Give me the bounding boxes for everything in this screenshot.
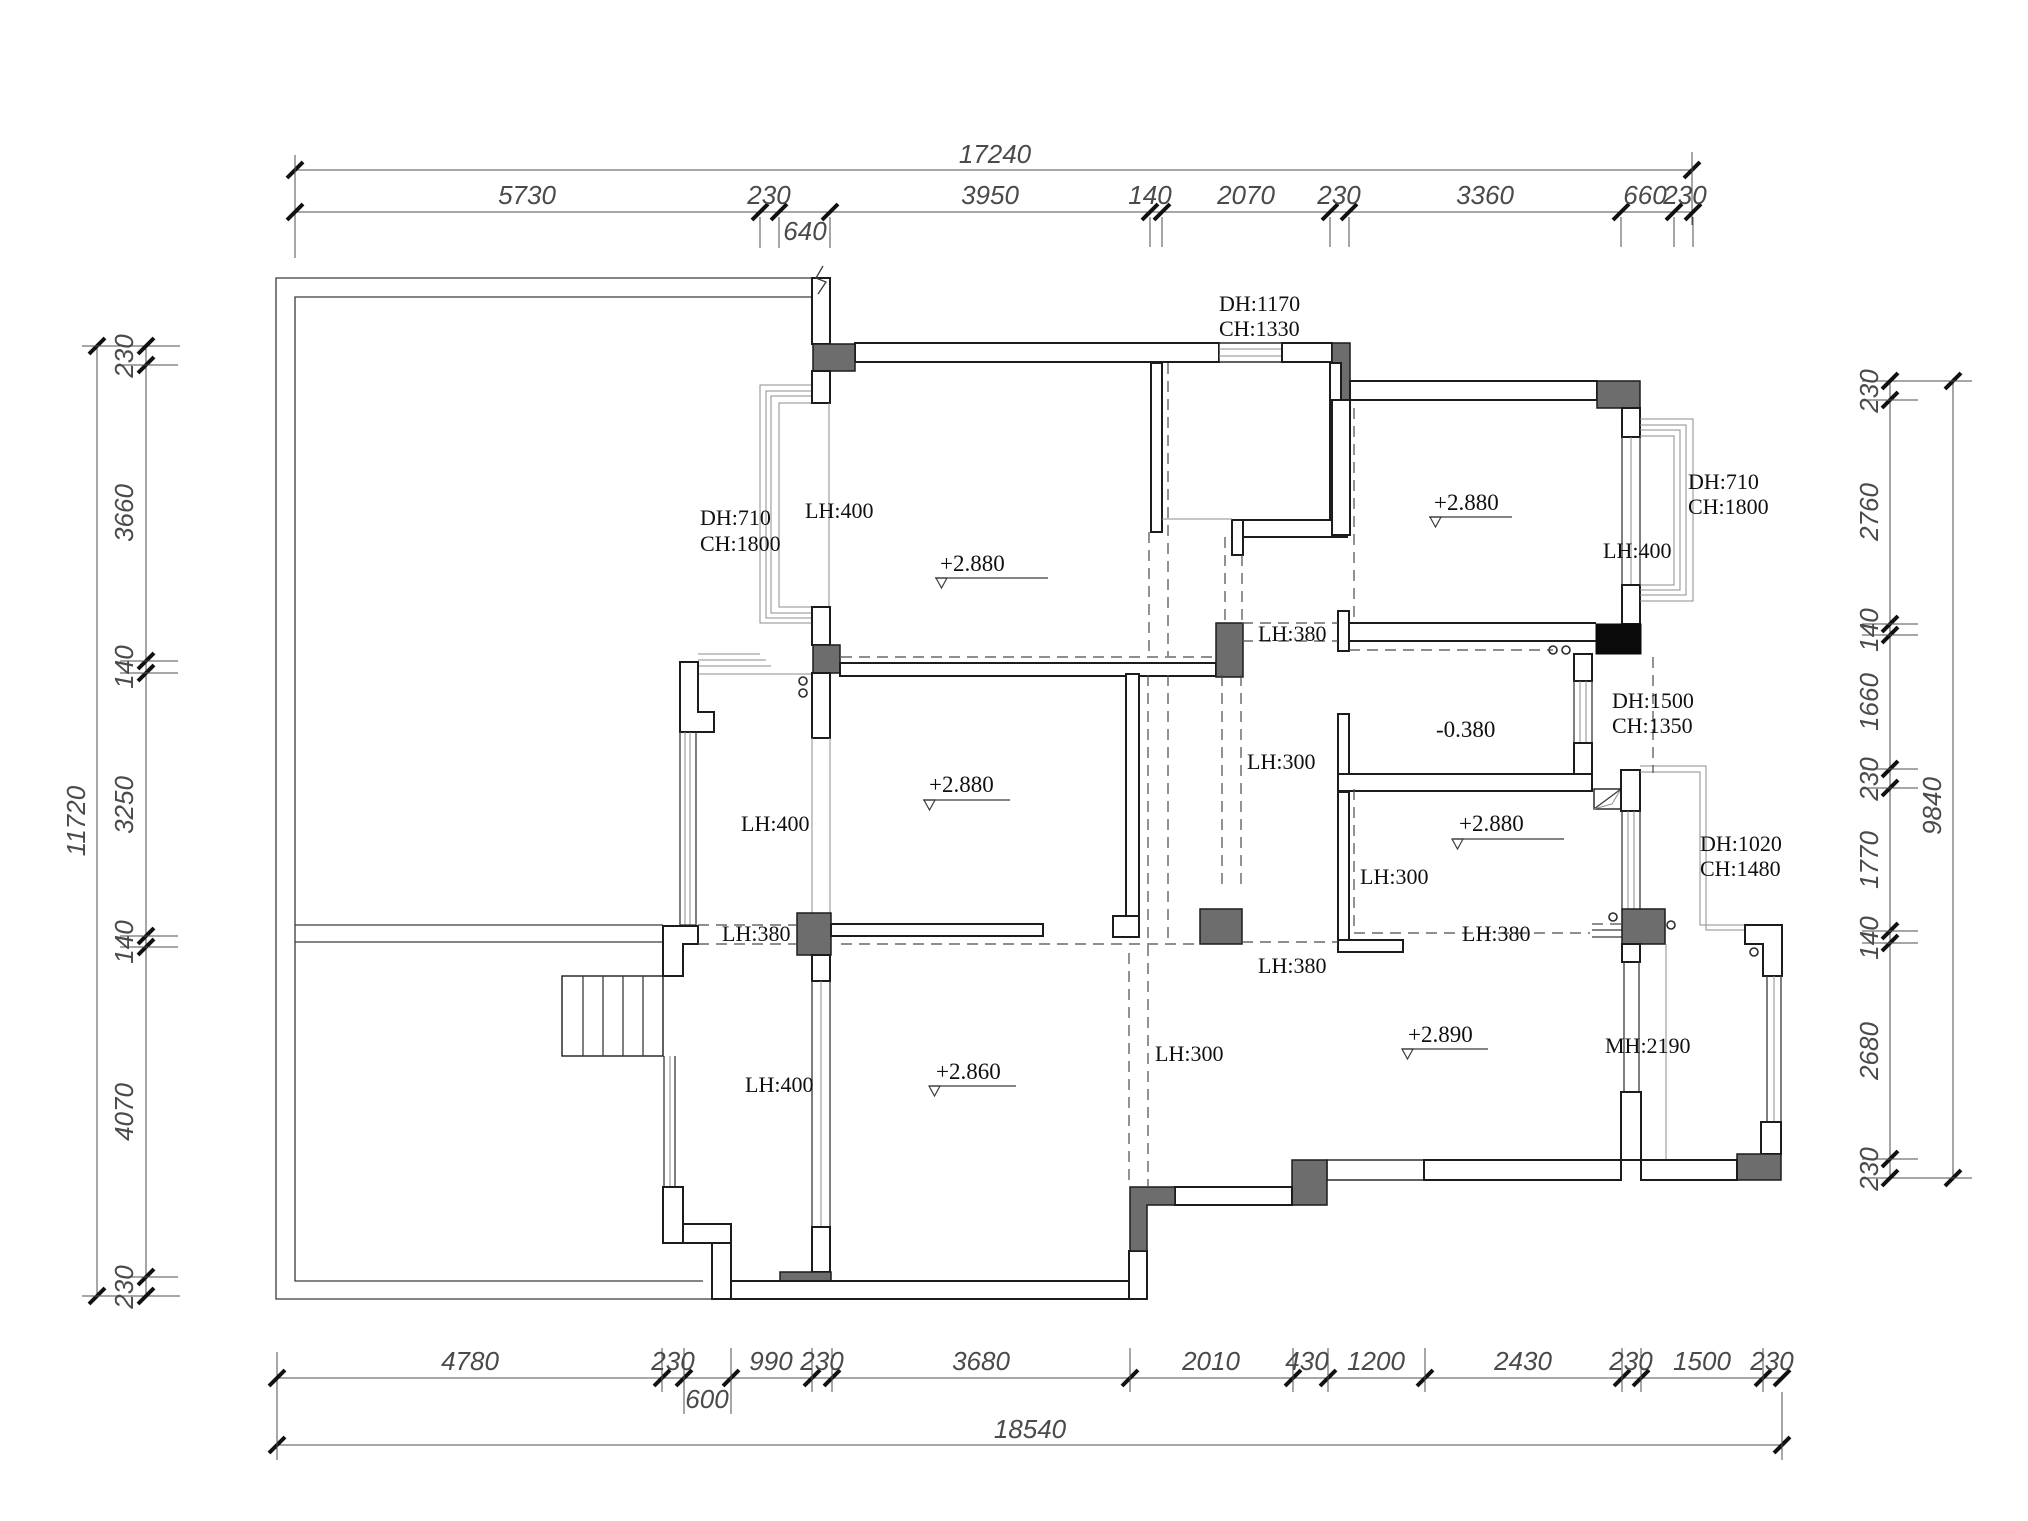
dimension label 140 top (1128, 180, 1172, 210)
label DH:1500 (1612, 688, 1694, 713)
dashed vertical right bedroom (1353, 408, 1355, 623)
wall pier below C1 (812, 371, 830, 403)
corner bay glazing inner (1640, 772, 1745, 925)
column C2 (813, 645, 840, 673)
wall closet bottom band (1242, 520, 1347, 537)
bay window B1 frame (779, 403, 829, 607)
svg-text:230: 230 (746, 180, 791, 210)
dimension label 4070 left (109, 1083, 139, 1141)
svg-text:230: 230 (1662, 180, 1707, 210)
dashed LH380 terrace door lower (698, 943, 797, 945)
dimension label 1200 bottom (1347, 1346, 1405, 1376)
svg-text:+2.890: +2.890 (1408, 1022, 1473, 1047)
svg-text:230: 230 (650, 1346, 695, 1376)
svg-text:230: 230 (109, 334, 139, 379)
svg-text:-0.380: -0.380 (1436, 717, 1495, 742)
dimension right chain line with ticks (1862, 373, 1918, 1186)
dimension right total line (1862, 373, 1972, 1186)
dashed vertical pair center a (1147, 675, 1149, 1187)
label LH:400 right bedroom (1603, 538, 1671, 563)
dimension label 230 bottom (1608, 1346, 1653, 1376)
svg-text:LH:380: LH:380 (1258, 953, 1326, 978)
svg-text:CH:1480: CH:1480 (1700, 856, 1781, 881)
wall piece left of -0.380 room top (1338, 611, 1349, 651)
svg-text:1770: 1770 (1854, 831, 1884, 889)
dashed line closet v2 (1167, 363, 1169, 656)
wall pier above window W5 (1574, 654, 1592, 681)
dimension label 230 left (109, 1265, 139, 1310)
hinge circle corner (1750, 948, 1758, 956)
svg-text:660: 660 (1623, 180, 1667, 210)
column C9 black (1596, 624, 1641, 654)
label CH:1800 left (700, 531, 781, 556)
svg-text:MH:2190: MH:2190 (1605, 1033, 1691, 1058)
wall top band right of window W1 (1282, 343, 1332, 362)
window W1 DH:1170 top kitchen (1219, 343, 1282, 362)
dimension label 2680 right (1854, 1022, 1884, 1081)
svg-text:LH:380: LH:380 (1258, 621, 1326, 646)
dimension label 230 right (1854, 369, 1884, 414)
window W5 DH:1500 (1574, 681, 1592, 743)
dashed line closet bottom v3 (1224, 537, 1226, 623)
column C10 (1622, 909, 1665, 944)
wall closet right (1330, 363, 1341, 520)
svg-text:2430: 2430 (1493, 1346, 1552, 1376)
svg-text:640: 640 (783, 216, 827, 246)
svg-text:230: 230 (1854, 1147, 1884, 1192)
bay window B2 nested rects (1640, 419, 1693, 601)
dashed line closet bottom v4 (1241, 555, 1243, 623)
svg-text:+2.880: +2.880 (1459, 811, 1524, 836)
dimension label 430 bottom (1285, 1346, 1329, 1376)
svg-text:17240: 17240 (959, 139, 1032, 169)
svg-text:DH:710: DH:710 (1688, 469, 1759, 494)
wall pier right of flue (1621, 770, 1640, 811)
stairs (562, 976, 663, 1056)
svg-text:140: 140 (1854, 916, 1884, 960)
label MH:2190 (1605, 1033, 1691, 1058)
svg-text:140: 140 (109, 645, 139, 689)
wall right-bedroom right pier bottom (1622, 585, 1640, 624)
label LH:380 bottom left (1258, 953, 1326, 978)
dashed LH380 bathroom bottom (1354, 932, 1590, 934)
dimension label 17240 (959, 139, 1032, 169)
svg-text:3360: 3360 (1456, 180, 1514, 210)
window W7 MH:2190 lines (1624, 962, 1639, 1092)
dimension label 3250 left (109, 776, 139, 834)
wall corner L-piece (1745, 925, 1782, 976)
label -0.380 (1436, 717, 1495, 742)
svg-text:2680: 2680 (1854, 1022, 1884, 1081)
wire terrace middle division lower line (295, 941, 663, 943)
dimension label 2760 right (1854, 483, 1884, 542)
dimension top total line (287, 152, 1700, 258)
svg-text:LH:380: LH:380 (1462, 921, 1530, 946)
svg-text:18540: 18540 (994, 1414, 1067, 1444)
dimension label 230 top (1662, 180, 1707, 210)
label LH:300 upper (1247, 749, 1315, 774)
dimension label 3950 top (961, 180, 1019, 210)
wall step piece S2 (683, 1224, 731, 1243)
label LH:400 bottom (745, 1072, 813, 1097)
label LH:300 bottom (1155, 1041, 1223, 1066)
svg-text:DH:1500: DH:1500 (1612, 688, 1694, 713)
dimension label 230 left (109, 334, 139, 379)
svg-text:3250: 3250 (109, 776, 139, 834)
door opening band 1200 (1327, 1160, 1424, 1180)
dimension left chain line with ticks (120, 338, 178, 1304)
dimension label 600 bottom second row (685, 1384, 729, 1414)
dimension left total line (82, 338, 180, 1304)
window W6 four lines (1622, 811, 1640, 909)
wire terrace outer boundary (276, 278, 812, 1299)
wall bathroom bottom stub band (1338, 940, 1403, 952)
svg-text:CH:1330: CH:1330 (1219, 316, 1300, 341)
svg-text:+2.880: +2.880 (1434, 490, 1499, 515)
window W2 lower left wall (812, 981, 830, 1227)
label LH:380 top corridor (1258, 621, 1326, 646)
svg-text:5730: 5730 (498, 180, 556, 210)
column C6 (1200, 909, 1242, 944)
wall top band of right bedroom (1350, 381, 1597, 400)
label LH:400 top (805, 498, 873, 523)
svg-text:230: 230 (1316, 180, 1361, 210)
label DH:1170 (1219, 291, 1300, 316)
column C3 (797, 913, 831, 955)
svg-text:LH:380: LH:380 (722, 921, 790, 946)
wall L-piece LP1 (680, 662, 714, 732)
wall bottom band right-1 (1424, 1160, 1621, 1180)
svg-text:LH:400: LH:400 (745, 1072, 813, 1097)
dimension label 9840 (1917, 777, 1947, 835)
svg-text:LH:400: LH:400 (741, 811, 809, 836)
dashed beam above middle band (841, 656, 1216, 658)
window W8 three lines (1767, 976, 1781, 1122)
dimension label 1770 right (1854, 831, 1884, 889)
wall pier above column C4 (812, 1227, 830, 1272)
dimension label 230 right (1854, 1147, 1884, 1192)
svg-text:DH:1020: DH:1020 (1700, 831, 1782, 856)
svg-text:DH:1170: DH:1170 (1219, 291, 1300, 316)
column C4 bottom of left wall (780, 1272, 831, 1299)
dimension bottom total line (269, 1352, 1790, 1460)
wall right-bedroom left band (1332, 400, 1350, 535)
label DH:710 left (700, 505, 771, 530)
dashed vertical pair LH300 hall b (1240, 675, 1242, 890)
wall stub above bottom band (1621, 1092, 1641, 1160)
window W3 four lines (680, 732, 696, 925)
svg-text:230: 230 (1749, 1346, 1794, 1376)
wall bottom band left part (731, 1281, 1129, 1299)
wall left pier above column C1 (812, 278, 830, 344)
wall top band left of kitchen window (855, 343, 1219, 362)
label LH:400 mid (741, 811, 809, 836)
svg-text:LH:400: LH:400 (805, 498, 873, 523)
dashed LH380 terrace door upper (698, 924, 797, 926)
wall pier below bay B1 (812, 607, 830, 645)
thin line below C10 (1665, 944, 1667, 1159)
wall L-piece LP2 (663, 926, 698, 976)
label CH:1480 (1700, 856, 1781, 881)
dimension label 140 right (1854, 608, 1884, 652)
terrace glazing lines to bay (698, 654, 812, 674)
dimension top chain line with ticks (287, 204, 1701, 248)
svg-text:2760: 2760 (1854, 483, 1884, 542)
dimension label 140 left (109, 920, 139, 964)
wall pier below C3 (812, 955, 830, 981)
wall pier below C2 (812, 673, 830, 738)
svg-text:230: 230 (109, 1265, 139, 1310)
dimension label 2070 top (1216, 180, 1275, 210)
svg-text:1660: 1660 (1854, 673, 1884, 731)
wall thin band left of C10 (1592, 930, 1622, 937)
svg-text:2010: 2010 (1181, 1346, 1240, 1376)
dimension label 4780 bottom (441, 1346, 499, 1376)
svg-text:140: 140 (1854, 608, 1884, 652)
level mark +2.890 (1402, 1022, 1488, 1059)
svg-text:CH:1800: CH:1800 (1688, 494, 1769, 519)
label DH:710 right (1688, 469, 1759, 494)
svg-text:230: 230 (1854, 369, 1884, 414)
wall -0.380 bottom band (1338, 774, 1592, 791)
svg-text:LH:300: LH:300 (1247, 749, 1315, 774)
column C12 L-shape (1130, 1187, 1175, 1251)
dashed vertical bathroom (1353, 789, 1355, 933)
dashed vertical LH300 bottom (1128, 953, 1130, 1187)
dashed LH380 right of C10 (1592, 923, 1622, 925)
wall interior x1126 (1126, 674, 1139, 916)
svg-text:2070: 2070 (1216, 180, 1275, 210)
wire terrace inner boundary (295, 297, 812, 1281)
svg-text:DH:710: DH:710 (700, 505, 771, 530)
svg-text:4070: 4070 (109, 1083, 139, 1141)
window W4 three lines below stairs (664, 1056, 675, 1187)
wall pier below C10 (1622, 944, 1640, 962)
dimension label 660 top (1623, 180, 1667, 210)
column C8 top right (1597, 381, 1640, 408)
dimension label 230 bottom (650, 1346, 695, 1376)
dimension label 11720 (61, 785, 91, 856)
svg-text:+2.880: +2.880 (940, 551, 1005, 576)
dashed vertical pair LH300 hall a (1221, 675, 1223, 890)
dimension label 230 bottom (1749, 1346, 1794, 1376)
dimension label 230 top (1316, 180, 1361, 210)
label CH:1800 right (1688, 494, 1769, 519)
svg-text:430: 430 (1285, 1346, 1329, 1376)
svg-text:990: 990 (749, 1346, 793, 1376)
column C11 (1292, 1160, 1327, 1205)
label CH:1350 (1612, 713, 1693, 738)
svg-text:LH:300: LH:300 (1360, 864, 1428, 889)
wall interior x1151 (1151, 363, 1162, 532)
dimension label 5730 top (498, 180, 556, 210)
dashed LH380 line kitchen (1349, 649, 1553, 651)
closet opening line (1162, 518, 1232, 520)
dimension label 640 top second row (783, 216, 827, 246)
wall pier below window W5 (1574, 743, 1592, 774)
wall foot of x1126 (1113, 916, 1139, 937)
wall piece right end of bottom band (1129, 1251, 1147, 1299)
level mark +2.860 (929, 1059, 1016, 1096)
svg-text:LH:400: LH:400 (1603, 538, 1671, 563)
svg-text:+2.880: +2.880 (929, 772, 994, 797)
svg-text:230: 230 (1608, 1346, 1653, 1376)
svg-text:3680: 3680 (952, 1346, 1010, 1376)
dimension label 230 right (1854, 757, 1884, 802)
window LH400 right-bedroom lines (1622, 437, 1640, 585)
label CH:1330 (1219, 316, 1300, 341)
level mark +2.880 bathroom (1452, 811, 1564, 849)
svg-text:140: 140 (1128, 180, 1172, 210)
dashed vertical pair center b (1167, 675, 1169, 944)
wall step piece S3 (712, 1243, 731, 1299)
svg-text:230: 230 (1854, 757, 1884, 802)
dimension label 3680 bottom (952, 1346, 1010, 1376)
dimension label 1660 right (1854, 673, 1884, 731)
wall step piece S1 (663, 1187, 683, 1243)
svg-text:1200: 1200 (1347, 1346, 1405, 1376)
level mark +2.880 middle room (923, 772, 1010, 810)
door hinge circles (799, 677, 807, 697)
wall right-bedroom right pier top (1622, 408, 1640, 437)
level mark +2.880 room1 (935, 551, 1048, 588)
wall bottom band right-2 (1641, 1160, 1737, 1180)
wall thin band top of -0.380 room (1349, 623, 1596, 641)
wall bathroom left band (1338, 792, 1349, 945)
svg-text:LH:300: LH:300 (1155, 1041, 1223, 1066)
corner bay glazing outer (1640, 766, 1745, 930)
svg-text:CH:1350: CH:1350 (1612, 713, 1693, 738)
dashed vertical right of W5 (1652, 657, 1654, 773)
column C5 (1216, 623, 1243, 677)
hinge circles at C10 (1609, 913, 1675, 929)
svg-text:1500: 1500 (1673, 1346, 1731, 1376)
svg-text:9840: 9840 (1917, 777, 1947, 835)
label LH:380 right (1462, 921, 1530, 946)
svg-text:11720: 11720 (61, 785, 91, 856)
svg-text:230: 230 (799, 1346, 844, 1376)
dimension label 3360 top (1456, 180, 1514, 210)
column C13 (1737, 1154, 1781, 1180)
break mark on top wall (816, 266, 826, 294)
wall -0.380 left pier (1338, 714, 1349, 792)
column C7 top middle (1332, 343, 1350, 400)
wire terrace middle division upper line (295, 924, 663, 926)
bay window B1 outer lines (760, 385, 811, 623)
dimension label 990 bottom (749, 1346, 793, 1376)
svg-text:4780: 4780 (441, 1346, 499, 1376)
label LH:300 bathroom (1360, 864, 1428, 889)
dimension label 18540 (994, 1414, 1067, 1444)
svg-text:+2.860: +2.860 (936, 1059, 1001, 1084)
svg-text:600: 600 (685, 1384, 729, 1414)
svg-text:3950: 3950 (961, 180, 1019, 210)
beam LH380 left (831, 924, 1043, 936)
door opening lines in left wall (812, 738, 830, 913)
label LH:380 left (722, 921, 790, 946)
dimension label 2430 bottom (1493, 1346, 1552, 1376)
dashed beam pair top corridor (1242, 623, 1338, 641)
dimension label 230 top (746, 180, 791, 210)
svg-text:3660: 3660 (109, 484, 139, 542)
door hinge circles kitchen (1549, 646, 1570, 654)
wall pier above C13 (1761, 1122, 1781, 1154)
svg-text:CH:1800: CH:1800 (700, 531, 781, 556)
wall middle band y662 (840, 663, 1216, 676)
dimension label 230 bottom (799, 1346, 844, 1376)
dimension label 2010 bottom (1181, 1346, 1240, 1376)
column C1 (813, 344, 855, 371)
level mark +2.880 right bedroom (1429, 490, 1512, 527)
dimension label 140 right (1854, 916, 1884, 960)
dimension label 3660 left (109, 484, 139, 542)
dimension label 140 left (109, 645, 139, 689)
svg-text:140: 140 (109, 920, 139, 964)
dashed LH380 left of bathroom (1242, 941, 1338, 943)
dimension bottom chain line with ticks (269, 1348, 1790, 1414)
label DH:1020 (1700, 831, 1782, 856)
dashed line closet left v1 (1148, 532, 1150, 656)
dimension label 1500 bottom (1673, 1346, 1731, 1376)
wall band y1187 (1175, 1187, 1292, 1205)
dashed LH380 center (841, 943, 1202, 945)
flue square with diagonal (1594, 789, 1621, 809)
wall closet bottom stub (1232, 520, 1243, 555)
